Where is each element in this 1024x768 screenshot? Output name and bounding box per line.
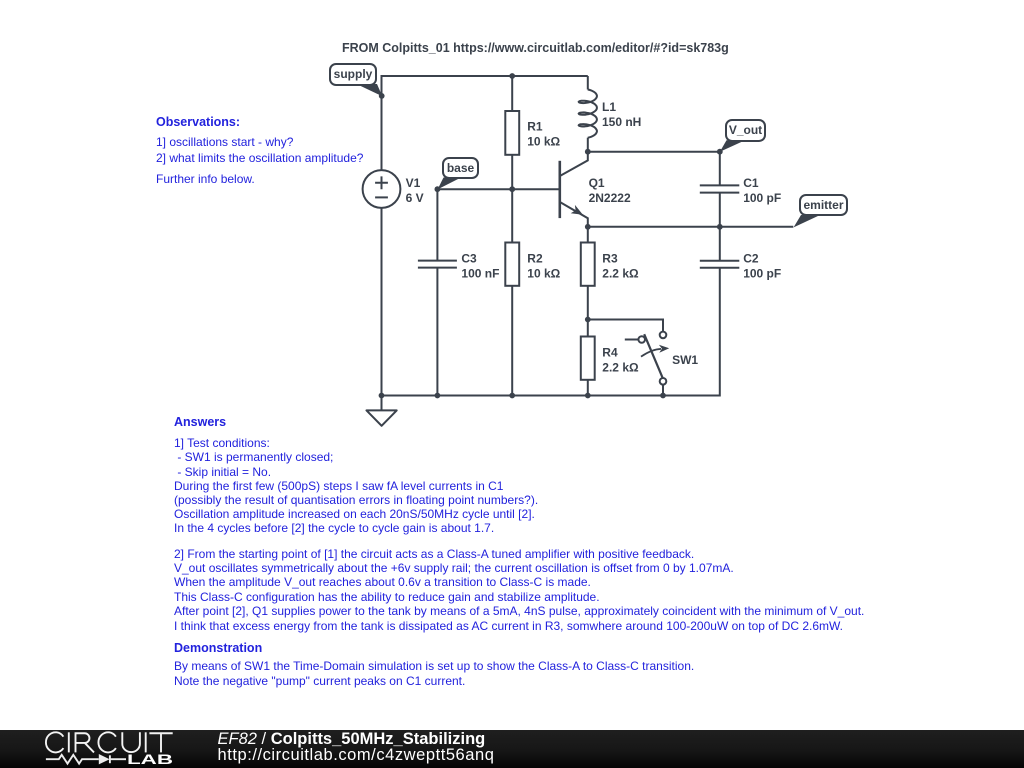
logo letter R bbox=[75, 732, 94, 752]
wire R1 bottom lead to base rail bbox=[511, 155, 513, 189]
junction node emitter C1C2 bbox=[717, 224, 723, 230]
wire C2 column lower bbox=[719, 268, 721, 397]
junction node collector bbox=[585, 149, 591, 155]
logo letter C bbox=[46, 732, 63, 752]
resistor R2 body bbox=[505, 243, 519, 286]
svg-text:2.2 kΩ: 2.2 kΩ bbox=[602, 361, 639, 375]
svg-text:150 nH: 150 nH bbox=[602, 115, 641, 129]
wire emitter rail bbox=[588, 226, 794, 228]
switch SW1 action arrow arc bbox=[641, 349, 661, 357]
svg-text:6 V: 6 V bbox=[406, 191, 424, 205]
logo letter I bbox=[145, 732, 147, 752]
logo letter T bbox=[149, 733, 172, 752]
capacitor C3 plates bbox=[418, 261, 457, 268]
svg-text:C3: C3 bbox=[461, 252, 477, 266]
wire C1 column lower bbox=[719, 193, 721, 227]
logo letter U bbox=[122, 732, 140, 752]
svg-text:10 kΩ: 10 kΩ bbox=[527, 267, 560, 281]
node label emitter bbox=[799, 194, 848, 216]
logo resistor-diode wire bbox=[46, 755, 126, 764]
junction node base R1R2 bbox=[509, 186, 515, 192]
transistor Q1 base bar bbox=[558, 161, 561, 218]
wire R4 top lead bbox=[587, 320, 589, 337]
voltage source V1 circle bbox=[363, 170, 401, 208]
wire V_out rail bbox=[588, 151, 720, 153]
node label V_out tail bbox=[720, 140, 744, 152]
wire R1 top lead bbox=[511, 76, 513, 111]
junction node ground switch bbox=[660, 393, 666, 399]
svg-text:R4: R4 bbox=[602, 346, 618, 360]
svg-text:100 nF: 100 nF bbox=[461, 267, 499, 281]
logo diode triangle bbox=[99, 754, 110, 764]
logo letter C bbox=[98, 732, 115, 752]
ground symbol triangle bbox=[367, 410, 397, 425]
resistor R4 body bbox=[581, 337, 595, 380]
svg-text:R1: R1 bbox=[527, 119, 543, 133]
switch SW1 pole circle bbox=[638, 336, 645, 343]
node label supply bbox=[329, 63, 377, 86]
svg-text:L1: L1 bbox=[602, 100, 616, 114]
capacitor C1 plates bbox=[700, 185, 740, 192]
wire L1 bottom lead bbox=[587, 138, 589, 152]
wire C2 column upper bbox=[719, 227, 721, 261]
wire R3 top lead bbox=[587, 227, 589, 243]
wire R4 bottom lead bbox=[587, 380, 589, 396]
junction node emitter bbox=[585, 224, 591, 230]
title bbox=[342, 41, 729, 56]
observations block bbox=[156, 115, 240, 129]
svg-text:100 pF: 100 pF bbox=[743, 191, 781, 205]
switch SW1 bottom terminal circle bbox=[660, 378, 667, 385]
ground stem bbox=[381, 396, 383, 411]
node label V_out bbox=[725, 119, 767, 142]
answers block bbox=[174, 415, 226, 429]
transistor Q1 emitter arrowhead bbox=[571, 205, 583, 215]
wire C1 column upper bbox=[719, 152, 721, 186]
wire collector to Q1 bbox=[560, 152, 588, 176]
inductor L1 coil bbox=[579, 90, 597, 138]
wire left column lower bbox=[381, 208, 383, 396]
wire left column upper bbox=[381, 75, 383, 170]
V1 minus sign bbox=[375, 196, 388, 198]
footer bar bbox=[0, 730, 1024, 768]
svg-text:2.2 kΩ: 2.2 kΩ bbox=[602, 267, 639, 281]
svg-text:2N2222: 2N2222 bbox=[589, 191, 631, 205]
resistor R3 body bbox=[581, 243, 595, 286]
svg-text:R2: R2 bbox=[527, 252, 543, 266]
junction node R1 top bbox=[509, 73, 515, 79]
svg-text:V1: V1 bbox=[406, 176, 421, 190]
svg-text:C1: C1 bbox=[743, 176, 759, 190]
junction node supply bbox=[379, 93, 385, 99]
svg-text:LAB: LAB bbox=[127, 751, 173, 767]
wire C3 column upper bbox=[436, 189, 438, 260]
wire C3 column lower bbox=[436, 268, 438, 396]
capacitor C2 plates bbox=[700, 261, 740, 268]
node label base tail bbox=[438, 178, 461, 190]
svg-text:10 kΩ: 10 kΩ bbox=[527, 134, 560, 148]
wire R3 bottom lead bbox=[587, 286, 589, 320]
transistor Q1 emitter diagonal bbox=[560, 202, 588, 227]
svg-text:R3: R3 bbox=[602, 252, 618, 266]
svg-text:SW1: SW1 bbox=[672, 353, 698, 367]
wire top rail bbox=[382, 75, 588, 77]
wire R2 top lead bbox=[511, 189, 513, 242]
junction node R3 bottom bbox=[585, 317, 591, 323]
svg-text:Q1: Q1 bbox=[589, 176, 605, 190]
V1 plus sign bbox=[375, 176, 388, 189]
junction node ground C3 bbox=[435, 393, 441, 399]
junction node base left bbox=[435, 186, 441, 192]
junction node ground R4 bbox=[585, 393, 591, 399]
wire R3 junction to switch branch bbox=[588, 320, 663, 332]
logo letter I bbox=[68, 732, 70, 752]
svg-text:C2: C2 bbox=[743, 252, 759, 266]
switch SW1 lever bbox=[644, 334, 662, 378]
wire base rail bbox=[437, 188, 559, 190]
node label base bbox=[442, 157, 479, 179]
junction node ground R2 bbox=[509, 393, 515, 399]
resistor R1 body bbox=[505, 111, 519, 155]
junction node ground left bbox=[379, 393, 385, 399]
switch SW1 top terminal circle bbox=[660, 332, 667, 339]
switch SW1 arrow head bbox=[659, 345, 669, 353]
wire L1 top lead bbox=[587, 76, 589, 90]
wire R2 bottom lead bbox=[511, 286, 513, 396]
svg-text:100 pF: 100 pF bbox=[743, 267, 781, 281]
wire switch pole stub bbox=[625, 339, 639, 341]
node label supply tail bbox=[357, 84, 383, 96]
wire bottom rail bbox=[381, 395, 720, 397]
junction node V_out bbox=[717, 149, 723, 155]
wire switch bottom lead bbox=[662, 385, 664, 396]
node label emitter tail bbox=[794, 215, 819, 227]
